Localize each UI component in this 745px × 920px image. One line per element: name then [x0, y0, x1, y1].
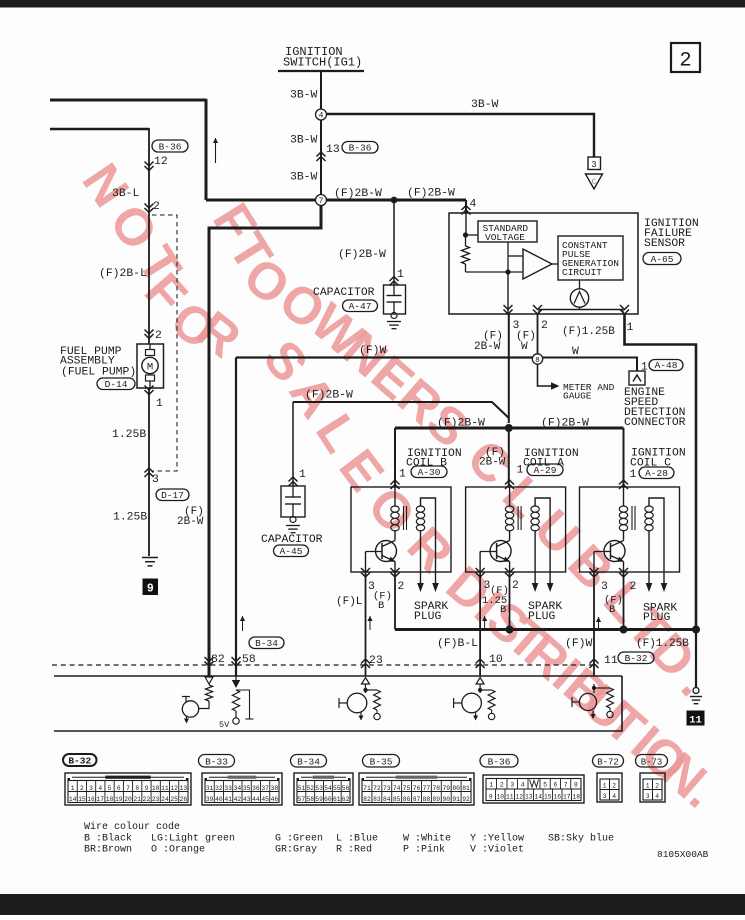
svg-text:44: 44: [252, 796, 260, 803]
dashed harness box around fuel pump wire: [152, 215, 177, 471]
svg-text:4: 4: [98, 785, 102, 792]
junction: [692, 626, 700, 634]
sensor internal resistor: [465, 235, 467, 246]
svg-text:32: 32: [215, 785, 223, 792]
page link box 3: [588, 157, 601, 170]
svg-text:BR:Brown: BR:Brown: [84, 845, 132, 856]
svg-text:2: 2: [679, 50, 691, 73]
svg-text:1: 1: [630, 469, 637, 481]
svg-text:B-36: B-36: [488, 756, 511, 767]
capacitor A-45: [281, 486, 305, 517]
svg-text:W: W: [521, 341, 528, 353]
wire: corner down: [205, 99, 208, 200]
chevrons ECU pin 10: [476, 659, 485, 664]
chevrons at sensor pin 4: [462, 206, 471, 211]
chevrons out of pump: [145, 386, 154, 391]
svg-text:1.25B: 1.25B: [112, 429, 146, 441]
chevrons at B-36 pin 12: [145, 162, 154, 167]
svg-text:76: 76: [413, 785, 421, 792]
svg-text:51: 51: [298, 785, 306, 792]
svg-text:8: 8: [135, 785, 139, 792]
wire: coil C pin3 to ECU pin 11 (F)W: [593, 572, 595, 676]
connector B-35 label: [363, 755, 400, 768]
svg-text:C: C: [592, 178, 597, 187]
connector oval A-65: [643, 253, 681, 265]
svg-text:52: 52: [306, 785, 314, 792]
svg-text:3: 3: [646, 793, 650, 800]
svg-text:3: 3: [591, 160, 596, 170]
svg-text:36: 36: [252, 785, 260, 792]
svg-text:G :Green: G :Green: [275, 834, 323, 845]
svg-text:34: 34: [234, 785, 242, 792]
svg-text:77: 77: [423, 785, 431, 792]
svg-text:42: 42: [234, 796, 242, 803]
fuel pump assembly box D-14: [137, 344, 164, 388]
junction: [463, 232, 468, 237]
svg-text:B: B: [500, 604, 506, 616]
svg-text:31: 31: [206, 785, 214, 792]
svg-text:7: 7: [319, 197, 324, 206]
svg-text:2: 2: [541, 320, 548, 332]
ECU connector boundary (dashed): [52, 664, 594, 666]
svg-text:2: 2: [398, 581, 405, 593]
svg-text:1: 1: [399, 469, 406, 481]
svg-text:56: 56: [342, 785, 350, 792]
svg-text:5: 5: [543, 781, 547, 788]
svg-text:45: 45: [261, 796, 269, 803]
connector oval A-45: [274, 545, 309, 557]
svg-text:2: 2: [155, 330, 162, 342]
svg-text:3: 3: [603, 793, 607, 800]
transistor: [347, 693, 367, 713]
svg-text:2B-W: 2B-W: [474, 341, 501, 353]
svg-text:CAPACITOR: CAPACITOR: [261, 534, 323, 546]
ground: fuel pump circuit: [142, 557, 158, 559]
wire: (F)W down to ECU pin 58: [235, 358, 237, 677]
svg-text:90: 90: [442, 796, 450, 803]
svg-text:17: 17: [563, 793, 571, 800]
svg-text:81: 81: [462, 785, 470, 792]
svg-text:14: 14: [534, 793, 542, 800]
svg-text:A-47: A-47: [349, 301, 372, 312]
wire: coil supply bus: [395, 427, 624, 430]
chevrons coil A pins: [476, 568, 485, 573]
svg-text:A-28: A-28: [645, 468, 668, 479]
svg-text:B-36: B-36: [349, 142, 372, 153]
svg-text:13: 13: [326, 144, 340, 156]
op-amp comparator: [523, 249, 552, 279]
wire: node 8 down to meter and gauge: [538, 364, 552, 386]
wire: sensor pin1 (F)1.25B to right rail: [625, 314, 697, 630]
chevrons capacitor A-47 pin 1: [390, 277, 399, 282]
chevrons coil C pins: [590, 568, 599, 573]
svg-text:75: 75: [403, 785, 411, 792]
svg-text:A-65: A-65: [651, 254, 674, 265]
ECU driver circuit (pin at x=480.1): [476, 678, 484, 685]
chevrons coil A pin 1: [505, 480, 514, 485]
motor brush bottom: [146, 375, 155, 381]
svg-text:M: M: [147, 362, 153, 374]
svg-text:15: 15: [544, 793, 552, 800]
svg-text:1: 1: [603, 783, 607, 790]
connector oval A-29: [527, 464, 563, 476]
svg-text:4: 4: [521, 781, 525, 788]
connector oval B-36 (pin 13): [342, 142, 378, 154]
transistor (pin 82): [199, 701, 209, 709]
wire: coil A pin2 to ground bus: [509, 572, 511, 630]
wire: top-left feed lower: [50, 128, 149, 131]
svg-text:1: 1: [489, 781, 493, 788]
svg-text:PLUG: PLUG: [643, 612, 671, 624]
junction: [620, 626, 628, 634]
svg-text:12: 12: [170, 785, 178, 792]
junction: capacitor A-47 tap: [391, 197, 398, 204]
svg-text:10: 10: [489, 654, 503, 666]
svg-text:(F)2B-W: (F)2B-W: [437, 418, 485, 430]
sensor internal bottom bus: [579, 307, 581, 309]
svg-text:4: 4: [319, 112, 324, 121]
B-36 keyway: [527, 779, 529, 790]
page number box 2: [671, 43, 700, 72]
svg-text:23: 23: [152, 796, 160, 803]
svg-text:B-34: B-34: [297, 756, 320, 767]
svg-text:(F)2B-W: (F)2B-W: [407, 188, 455, 200]
svg-text:92: 92: [462, 796, 470, 803]
chevrons capacitor A-45 pin 1: [289, 477, 298, 482]
chevrons ECU pin 58: [232, 657, 241, 662]
svg-text:9: 9: [145, 785, 149, 792]
svg-text:(F)L: (F)L: [336, 596, 362, 608]
connector B-32 label: [63, 754, 97, 766]
wire: node 4 to node 7 (3B-W): [320, 120, 322, 195]
connector oval B-32: [618, 652, 654, 664]
wire: pump to ground (1.25B): [148, 388, 150, 556]
svg-text:3B-W: 3B-W: [290, 135, 318, 147]
connector oval B-36 (pin 12): [152, 140, 188, 152]
svg-text:21: 21: [133, 796, 141, 803]
standard voltage box: [478, 221, 537, 242]
svg-text:61: 61: [333, 796, 341, 803]
resistor: [205, 685, 212, 701]
svg-text:87: 87: [413, 796, 421, 803]
connector oval A-28: [639, 467, 674, 479]
chevrons ECU pin 82: [205, 657, 214, 662]
signal arrow: [369, 616, 371, 630]
sensor output device circle: [570, 289, 588, 307]
svg-text:33: 33: [224, 785, 232, 792]
wire: sensor pin2 (F)W down to node 8: [537, 314, 539, 354]
svg-text:B-72: B-72: [597, 757, 619, 767]
connector oval A-48: [649, 360, 683, 371]
svg-text:R :Red: R :Red: [336, 844, 372, 856]
wire: node 8 left to engine side (F)W: [236, 356, 532, 358]
connector B-73 pin grid: [640, 773, 665, 802]
main junction (F)2B-W: [505, 424, 513, 432]
constant pulse generation circuit box: [558, 236, 623, 280]
svg-text:CONNECTOR: CONNECTOR: [624, 417, 686, 429]
connector B-72 pin grid: [597, 773, 622, 802]
wire: coil A pin3 to ECU pin 10 (F)B-L: [479, 572, 481, 676]
signal arrow: [484, 616, 486, 630]
svg-text:71: 71: [363, 785, 371, 792]
svg-text:LG:Light green: LG:Light green: [151, 833, 235, 845]
svg-text:(FUEL PUMP): (FUEL PUMP): [61, 367, 136, 379]
svg-text:1: 1: [397, 269, 404, 281]
svg-text:20: 20: [124, 796, 132, 803]
svg-text:4: 4: [655, 793, 659, 800]
svg-text:37: 37: [261, 785, 269, 792]
svg-text:3: 3: [510, 781, 514, 788]
wire: switch to node 4 (3B-W): [320, 72, 322, 109]
connector oval B-34 (pin 58): [249, 637, 284, 649]
svg-text:13: 13: [525, 793, 533, 800]
svg-text:83: 83: [373, 796, 381, 803]
svg-text:25: 25: [170, 796, 178, 803]
wire: sensor pin3 down (F)2B-W: [508, 314, 510, 423]
ignition coil B (A-30): [351, 487, 451, 592]
svg-text:12: 12: [154, 156, 168, 168]
junction: [363, 688, 367, 692]
svg-text:1: 1: [517, 465, 524, 477]
svg-text:B-36: B-36: [159, 141, 182, 152]
svg-text:2B-W: 2B-W: [177, 516, 204, 528]
chevrons ECU pin 11: [590, 659, 599, 664]
svg-text:2: 2: [153, 201, 160, 213]
svg-text:58: 58: [242, 654, 256, 666]
5V supply circle: [233, 718, 239, 724]
svg-text:(F)W: (F)W: [565, 638, 593, 650]
wire: down into ignition failure sensor pin 4: [465, 200, 467, 213]
bottom border bar: [0, 894, 745, 915]
svg-text:1: 1: [299, 469, 306, 481]
svg-text:W: W: [572, 346, 579, 358]
svg-text:(F)2B-W: (F)2B-W: [541, 418, 589, 430]
connector B-33 label: [199, 755, 235, 768]
svg-text:A-30: A-30: [418, 467, 441, 478]
svg-text:A-45: A-45: [280, 546, 303, 557]
svg-text:(F)B-L: (F)B-L: [437, 638, 478, 650]
svg-text:B-34: B-34: [255, 638, 278, 649]
motor brush top: [146, 350, 155, 356]
engine speed detection connector symbol: [629, 371, 645, 385]
connector B-36 pin grid: [483, 775, 584, 803]
ground: capacitor A-47: [387, 321, 401, 323]
ECU pin 82 input: triangle: [205, 677, 213, 684]
svg-text:4: 4: [612, 793, 616, 800]
svg-text:8: 8: [535, 357, 540, 365]
svg-text:2: 2: [655, 783, 659, 790]
svg-text:B-32: B-32: [68, 755, 91, 766]
connector B-72 label: [593, 755, 624, 768]
svg-text:1: 1: [627, 322, 634, 334]
ignition coil C (A-28): [580, 487, 680, 592]
svg-text:72: 72: [373, 785, 381, 792]
svg-text:GR:Gray: GR:Gray: [275, 845, 317, 856]
svg-text:35: 35: [243, 785, 251, 792]
svg-text:46: 46: [271, 796, 279, 803]
wire: coil C pin2 to ground bus: [623, 572, 625, 630]
svg-text:V :Violet: V :Violet: [470, 844, 524, 856]
svg-text:17: 17: [97, 796, 105, 803]
svg-text:CIRCUIT: CIRCUIT: [562, 267, 602, 278]
svg-text:10: 10: [496, 793, 504, 800]
svg-text:2: 2: [630, 581, 637, 593]
svg-text:L :Blue: L :Blue: [336, 833, 378, 845]
chevrons into pump: [145, 330, 154, 335]
svg-text:D-17: D-17: [161, 490, 184, 501]
connector oval A-30: [411, 466, 447, 478]
svg-text:13: 13: [180, 785, 188, 792]
connector oval D-14: [97, 378, 135, 390]
svg-text:16: 16: [87, 796, 95, 803]
ground bus: [395, 628, 696, 631]
ground: capacitor A-45: [286, 525, 300, 527]
svg-text:(F)1.25B: (F)1.25B: [562, 326, 615, 338]
svg-text:84: 84: [383, 796, 391, 803]
svg-text:85: 85: [393, 796, 401, 803]
svg-text:16: 16: [553, 793, 561, 800]
svg-text:6: 6: [117, 785, 121, 792]
svg-text:Y :Yellow: Y :Yellow: [470, 833, 524, 845]
wire: coil B pin2 to ground bus: [394, 572, 396, 630]
svg-text:11: 11: [604, 655, 618, 667]
svg-text:VOLTAGE: VOLTAGE: [485, 232, 525, 243]
svg-text:SWITCH(IG1): SWITCH(IG1): [283, 56, 362, 70]
wire: node 7 to sensor (F)2B-W: [327, 199, 467, 202]
svg-text:B: B: [609, 604, 615, 616]
connector oval D-17: [156, 489, 189, 501]
ground: right rail: [693, 688, 699, 694]
signal arrow: [242, 616, 244, 631]
wire: down to ignition coil C pin1: [623, 428, 625, 487]
ECU pin 58 input: diode: [235, 676, 237, 680]
svg-text:(F)1.25B: (F)1.25B: [636, 638, 689, 650]
svg-text:7: 7: [126, 785, 130, 792]
wire to standard voltage box: [466, 234, 479, 236]
wire: node 4 right 3B-W: [327, 114, 595, 157]
svg-text:88: 88: [423, 796, 431, 803]
svg-text:2: 2: [512, 580, 519, 592]
wire: into node 7: [206, 199, 316, 202]
ignition switch terminal bar: [278, 70, 364, 72]
chevrons: [145, 204, 154, 209]
svg-text:60: 60: [324, 796, 332, 803]
junction: [506, 626, 514, 634]
svg-text:18: 18: [106, 796, 114, 803]
block ref 9 (black): [143, 579, 159, 596]
wire: coil B pin3 to ECU pin 23 (F)L: [365, 572, 367, 676]
junction: [478, 688, 482, 692]
connector oval A-47: [343, 300, 378, 312]
svg-text:B-33: B-33: [205, 756, 228, 767]
svg-text:B-35: B-35: [370, 756, 393, 767]
connector B-33 pin grid: [202, 773, 282, 805]
svg-text:3: 3: [152, 474, 159, 486]
svg-text:PLUG: PLUG: [528, 611, 556, 623]
connector B-35 pin grid: [359, 773, 474, 805]
connector B-73 label: [636, 755, 668, 768]
node 7: [316, 195, 327, 206]
connector B-32 pin grid: [65, 773, 191, 805]
svg-text:3B-W: 3B-W: [290, 172, 318, 184]
svg-text:3B-W: 3B-W: [290, 90, 318, 102]
svg-text:9: 9: [489, 793, 493, 800]
svg-text:80: 80: [452, 785, 460, 792]
block ref 11 (black): [687, 711, 705, 726]
branch line: [236, 690, 250, 719]
sensor internal: feed wire: [465, 213, 467, 235]
svg-text:2B-W: 2B-W: [479, 457, 506, 469]
svg-text:2: 2: [612, 783, 616, 790]
svg-text:(F)2B-L: (F)2B-L: [99, 268, 147, 280]
svg-text:(F)2B-W: (F)2B-W: [334, 188, 382, 200]
svg-text:86: 86: [403, 796, 411, 803]
svg-text:3: 3: [601, 581, 608, 593]
wire: top-left feed upper: [50, 99, 206, 102]
junction: [505, 269, 510, 274]
svg-text:11: 11: [689, 715, 702, 727]
svg-text:3B-L: 3B-L: [112, 188, 140, 200]
svg-text:12: 12: [515, 793, 523, 800]
svg-text:40: 40: [215, 796, 223, 803]
svg-text:W :White: W :White: [403, 833, 451, 845]
chevrons ECU pin 23: [361, 659, 370, 664]
svg-text:73: 73: [383, 785, 391, 792]
direction arrow: [215, 138, 217, 163]
op-amp input wires: [466, 271, 524, 273]
wire: node 8 right to A-48 (W): [543, 358, 637, 372]
ECU driver circuit (pin at x=365.5): [362, 678, 370, 685]
svg-text:CAPACITOR: CAPACITOR: [313, 287, 375, 299]
svg-text:82: 82: [363, 796, 371, 803]
svg-text:79: 79: [442, 785, 450, 792]
svg-text:8: 8: [574, 781, 578, 788]
svg-text:3: 3: [89, 785, 93, 792]
svg-text:4: 4: [470, 199, 477, 211]
connector B-34 pin grid: [294, 773, 353, 805]
wire: node 7 down/left/down to ECU pin 82 (F)2B-W: [209, 206, 321, 677]
wire: down to ignition coil A pin1: [508, 428, 510, 487]
node 8: [532, 354, 542, 364]
svg-text:38: 38: [271, 785, 279, 792]
chevrons on 3B-W wire at B-36 pin 13: [317, 152, 326, 157]
svg-text:43: 43: [243, 796, 251, 803]
svg-text:9: 9: [147, 583, 154, 596]
svg-text:2: 2: [500, 781, 504, 788]
svg-text:B-73: B-73: [641, 757, 663, 767]
wire: capacitor A-47 stub (F)2B-W: [393, 200, 395, 285]
svg-text:91: 91: [452, 796, 460, 803]
chevrons coil B pin 1: [391, 480, 400, 485]
page link triangle C: [586, 174, 603, 189]
wire to output device: [579, 280, 581, 289]
svg-text:5: 5: [108, 785, 112, 792]
transistor: [462, 693, 482, 713]
svg-text:3B-W: 3B-W: [471, 99, 499, 111]
svg-text:SENSOR: SENSOR: [644, 238, 685, 250]
svg-text:B: B: [378, 600, 384, 612]
svg-text:11: 11: [161, 785, 169, 792]
svg-text:6: 6: [553, 781, 557, 788]
svg-text:11: 11: [506, 793, 514, 800]
svg-text:89: 89: [433, 796, 441, 803]
ECU body: [54, 675, 622, 677]
signal arrow: [598, 617, 600, 631]
motor circle M: [142, 357, 158, 373]
svg-text:53: 53: [315, 785, 323, 792]
top border bar: [0, 0, 745, 8]
svg-text:24: 24: [161, 796, 169, 803]
